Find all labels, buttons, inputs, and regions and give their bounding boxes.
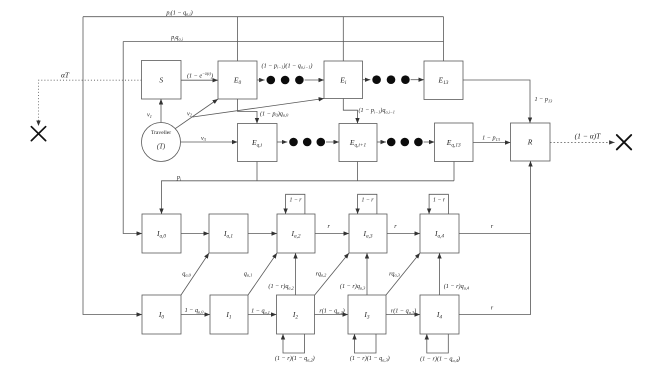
wire I1 to I2 <box>248 314 277 316</box>
box Ia1 <box>209 214 248 253</box>
wire diagonal I2 to Ia3 <box>315 253 349 295</box>
node left exit X <box>31 127 45 141</box>
wire self loop above Ia3 <box>358 194 377 214</box>
node dots row2 set A <box>289 138 325 147</box>
wire dots to Eq13 <box>424 141 435 143</box>
box Ia4 <box>420 214 459 253</box>
box S <box>142 61 182 100</box>
wire I0 to I1 <box>181 314 210 316</box>
wire self loop above Ia2 <box>286 194 305 214</box>
wire E13 to R elbow <box>463 80 530 123</box>
node dots row1 set B <box>372 75 409 84</box>
wire I2 to I3 <box>315 314 349 316</box>
box Ia2 <box>277 214 315 253</box>
wire feedback line p_i q_ai second horizontal <box>123 41 443 43</box>
wire dots to Ei <box>305 79 324 81</box>
wire Eq13 to R <box>473 142 511 144</box>
wire self loop below I4 <box>427 334 449 353</box>
wire p_i collector from Eq bottoms to Ia0 <box>256 162 258 181</box>
node dots row1 set A <box>267 76 304 85</box>
wire Ei top riser <box>342 17 344 61</box>
wire E0 to dots <box>257 79 265 81</box>
wire self loop below I3 <box>355 334 377 353</box>
wire Ia1 to Ia2 <box>248 233 277 235</box>
box Eqi+1 <box>339 124 377 162</box>
svg-text:Traveller: Traveller <box>151 130 171 136</box>
box Ia3 <box>349 214 387 253</box>
box I1 <box>210 295 248 334</box>
box E0 <box>218 61 257 99</box>
wire r collector Ia4 and I4 to R bottom <box>459 233 531 235</box>
box E13 <box>424 61 463 100</box>
wire self loop above Ia4 <box>429 194 448 214</box>
box R <box>511 123 551 161</box>
wire Ia3 to Ia4 labelled r <box>387 233 420 235</box>
wire dots to E13 <box>411 79 424 81</box>
svg-text:(T): (T) <box>157 143 166 150</box>
node Traveller circle <box>142 123 181 162</box>
wire Ei down to Eqi+1 elbow <box>343 99 357 124</box>
wire v2 Traveller to E0 <box>175 99 218 129</box>
wire diagonal I3 to Ia4 <box>386 253 420 295</box>
svg-text:1 − r: 1 − r <box>290 198 303 204</box>
wire v2 branch Traveller to Ei <box>193 99 324 118</box>
wire Ei to dots <box>362 79 370 81</box>
wire I3 to I4 <box>386 314 420 316</box>
wire v1 Traveller to S <box>160 99 162 123</box>
wire E0 top riser <box>237 17 239 61</box>
wire diagonal I1 to Ia2 <box>248 253 277 295</box>
wire feedback line1 left vertical into I0 <box>83 17 142 315</box>
wire arrow S to E0 <box>181 79 218 81</box>
node right exit X <box>617 135 631 149</box>
wire Ia2 to Ia3 labelled r <box>315 233 349 235</box>
wire feedback line2 left vertical into Ia0 <box>123 42 142 234</box>
wire Eqi to dots <box>277 141 287 143</box>
wire Ia0 to Ia1 <box>181 233 209 235</box>
wire E0 down to Eqi elbow <box>238 99 258 124</box>
wire vertical I2 to Ia2 <box>295 253 297 295</box>
svg-text:R: R <box>527 138 533 147</box>
wire dashed (1-alpha)T from R to right X <box>550 141 615 143</box>
wire v3 Traveller to Eqi <box>181 141 238 143</box>
box Eq13 <box>435 123 474 162</box>
box Eqi <box>238 124 278 162</box>
svg-text:(1 − α)T: (1 − α)T <box>575 131 601 140</box>
wire dotted alphaT from S to left X <box>39 80 142 126</box>
wire feedback line p_i(1-q_ai) top horizontal <box>83 16 444 18</box>
wire dots to Eqi+1 <box>326 141 339 143</box>
box Ei <box>324 61 363 99</box>
box I0 <box>142 295 181 334</box>
wire Eqi+1 to dots <box>377 141 386 143</box>
wire vertical I3 to Ia3 <box>366 253 368 295</box>
svg-text:1 − r: 1 − r <box>433 198 446 204</box>
svg-text:αT: αT <box>61 71 70 80</box>
box I3 <box>348 295 386 334</box>
node dots row2 set B <box>387 138 423 147</box>
svg-text:1 − r: 1 − r <box>362 198 375 204</box>
wire diagonal I0 to Ia1 <box>181 253 209 295</box>
svg-text:S: S <box>159 76 163 85</box>
box Ia0 <box>142 214 181 253</box>
box I4 <box>420 295 459 334</box>
wire vertical I4 to Ia4 <box>439 253 441 295</box>
box I2 <box>277 295 315 334</box>
wire self loop below I2 <box>283 334 305 353</box>
wire E13 top riser <box>443 17 445 61</box>
